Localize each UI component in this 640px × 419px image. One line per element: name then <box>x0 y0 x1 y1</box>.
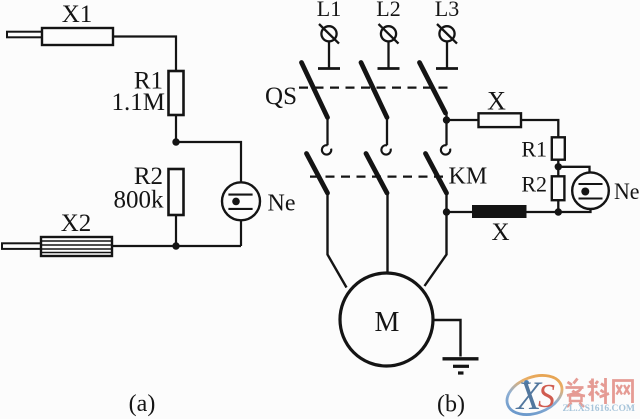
probe X1 tip <box>7 32 42 38</box>
svg-text:QS: QS <box>265 83 297 110</box>
wire R1 to node E <box>557 160 559 177</box>
wire node E to lamp Ne (b) <box>558 167 589 173</box>
wire node C to resistor X <box>447 119 479 121</box>
probe X1 body <box>42 28 113 45</box>
KM blade 3 <box>426 154 447 194</box>
wire node A to lamp Ne <box>176 142 241 183</box>
wire QS2 to KM2 <box>386 118 388 146</box>
fuse FU1 <box>319 24 339 44</box>
svg-text:M: M <box>375 307 400 338</box>
KM contact hook 1 <box>322 145 331 154</box>
svg-text:ZL.XS1616.COM: ZL.XS1616.COM <box>563 404 636 414</box>
svg-text:800k: 800k <box>114 187 165 214</box>
QS fixed contact 2 <box>378 67 400 70</box>
watermark char liao <box>588 378 610 404</box>
KM contact hook 3 <box>441 145 450 154</box>
svg-text:X: X <box>487 87 506 116</box>
KM blade 2 <box>366 154 387 194</box>
resistor R1 <box>169 71 184 115</box>
wire QS1 to KM1 <box>326 118 328 146</box>
probe bar X (black) <box>472 205 527 218</box>
neon lamp Ne (a) <box>222 182 260 220</box>
node B <box>172 242 179 249</box>
fuse FU3 <box>437 24 457 44</box>
wire R1 to node A <box>175 115 177 142</box>
wire lamp Ne bottom <box>240 220 242 246</box>
svg-text:X: X <box>491 219 509 246</box>
svg-text:KM: KM <box>449 164 488 190</box>
watermark char zi <box>566 379 586 408</box>
resistor R2 <box>169 169 184 215</box>
svg-text:L1: L1 <box>317 0 341 21</box>
svg-text:L3: L3 <box>435 0 459 21</box>
wire motor to ground <box>433 320 461 357</box>
QS blade 3 <box>420 63 446 114</box>
resistor R1 (b) <box>552 137 565 159</box>
watermark logo ring <box>502 368 568 419</box>
watermark char wang <box>614 381 633 404</box>
svg-text:R2: R2 <box>521 172 547 197</box>
wire lamp Ne (b) bottom <box>527 209 591 212</box>
ground <box>443 359 479 373</box>
resistor X (b) <box>479 113 522 127</box>
resistor R2 (b) <box>552 176 565 200</box>
wire X to R1 (b) <box>521 120 558 137</box>
node C <box>443 116 450 123</box>
wire FU3 to QS <box>446 41 448 68</box>
motor M <box>340 273 433 366</box>
fuse FU2 <box>379 24 399 44</box>
watermark dot <box>524 380 529 385</box>
QS fixed contact 1 <box>318 67 340 70</box>
svg-text:(b): (b) <box>437 392 465 418</box>
wire QS3 to KM3 <box>445 113 447 145</box>
wire R2 to node B <box>175 215 177 246</box>
node E <box>555 163 562 170</box>
QS blade 1 <box>302 63 328 118</box>
wire FU1 to QS <box>328 41 330 68</box>
svg-text:1.1M: 1.1M <box>112 89 165 116</box>
svg-text:S: S <box>538 378 555 415</box>
wire KM2 to motor <box>386 193 388 274</box>
wire KM3 to motor <box>425 193 447 286</box>
svg-text:Ne: Ne <box>614 179 640 204</box>
wire KM1 to motor <box>328 193 347 288</box>
KM contact hook 2 <box>381 145 390 154</box>
wire FU2 to QS <box>387 41 389 68</box>
svg-text:L2: L2 <box>376 0 400 21</box>
wire bottom run (a) <box>112 245 241 247</box>
probe X2 tip <box>2 243 41 249</box>
QS fixed contact 3 <box>436 67 458 70</box>
node A <box>172 138 179 145</box>
svg-text:Ne: Ne <box>268 191 296 217</box>
svg-text:X1: X1 <box>62 1 93 28</box>
probe X2 body <box>41 237 112 256</box>
KM blade 1 <box>307 154 328 194</box>
svg-text:(a): (a) <box>129 391 156 417</box>
node F <box>555 208 562 215</box>
node D <box>443 208 450 215</box>
wire R2 bottom <box>557 200 559 212</box>
svg-text:R1: R1 <box>521 137 547 162</box>
QS linkage (dashed) <box>299 86 452 88</box>
wire node D to probe bar X <box>447 211 473 213</box>
QS blade 2 <box>361 63 387 118</box>
neon lamp Ne (b) <box>572 172 609 209</box>
wire X1 to R1 <box>113 37 176 72</box>
KM linkage (dashed) <box>310 176 446 178</box>
svg-text:X2: X2 <box>61 210 92 237</box>
